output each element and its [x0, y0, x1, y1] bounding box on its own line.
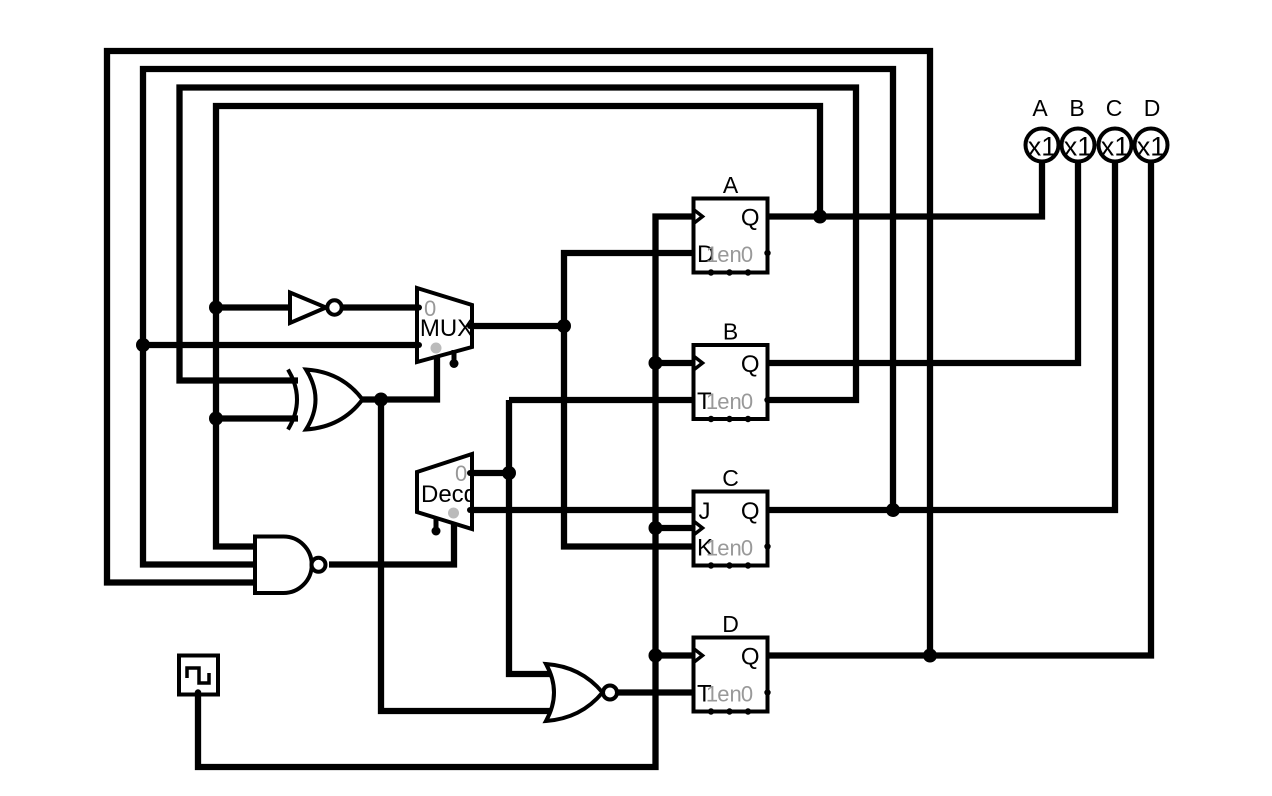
- wire feedback loop 3 (FF B notQ to XOR): [180, 88, 857, 401]
- svg-text:Q: Q: [741, 498, 760, 525]
- node junction mux out: [557, 319, 571, 333]
- svg-text:0: 0: [741, 682, 753, 707]
- multiplexer MUX: [416, 288, 473, 368]
- node junction clockD: [649, 649, 663, 663]
- clock source: [179, 656, 218, 696]
- flip-flop D (T): [694, 611, 771, 715]
- svg-text:0: 0: [741, 389, 753, 414]
- svg-text:en: en: [717, 682, 741, 707]
- decoder Decd: [417, 454, 477, 536]
- svg-text:D: D: [722, 611, 739, 637]
- nand gate: [255, 537, 326, 594]
- node junction AQ: [813, 210, 827, 224]
- wire NOR output: [618, 689, 694, 695]
- wire decoder out1 net: [472, 507, 694, 513]
- output probe B: [1062, 95, 1095, 162]
- node junction clockB: [649, 356, 663, 370]
- svg-text:0: 0: [741, 242, 753, 267]
- svg-text:Q: Q: [741, 205, 760, 232]
- output probe C: [1099, 95, 1132, 162]
- svg-text:B: B: [723, 319, 738, 345]
- wire FF B Q to probe B: [768, 162, 1079, 363]
- svg-text:x1: x1: [1101, 132, 1130, 162]
- node junction clockC: [649, 521, 663, 535]
- svg-text:J: J: [699, 498, 711, 525]
- wire clock net: [198, 217, 694, 768]
- wire feedback loop 2 (FF C Q to NAND and MUX): [143, 69, 1115, 565]
- flip-flop B (T): [694, 319, 771, 423]
- node junction dec out0: [502, 466, 516, 480]
- node junction CQ: [886, 503, 900, 517]
- svg-text:B: B: [1069, 95, 1084, 121]
- svg-text:en: en: [717, 536, 741, 561]
- svg-text:0: 0: [741, 536, 753, 561]
- svg-text:C: C: [722, 465, 739, 491]
- flip-flop A (D): [694, 172, 771, 276]
- svg-text:MUX: MUX: [420, 315, 473, 342]
- svg-text:C: C: [1106, 95, 1123, 121]
- output probe D: [1135, 95, 1168, 162]
- node junction DQ: [923, 649, 937, 663]
- node junction xor out: [374, 393, 388, 407]
- svg-text:Decd: Decd: [421, 481, 477, 508]
- svg-text:x1: x1: [1137, 132, 1166, 162]
- wire NAND output net: [329, 524, 454, 565]
- svg-text:A: A: [723, 172, 739, 198]
- wire MUX output net: [472, 253, 694, 547]
- svg-text:en: en: [717, 242, 741, 267]
- xor gate: [288, 370, 363, 430]
- svg-text:Q: Q: [741, 351, 760, 378]
- svg-text:x1: x1: [1064, 132, 1093, 162]
- wire NOT output: [343, 304, 417, 310]
- svg-text:D: D: [1144, 95, 1161, 121]
- node junction loop2 mux: [136, 338, 150, 352]
- output probe A: [1026, 95, 1059, 162]
- node junction loop4 not: [209, 301, 223, 315]
- svg-text:en: en: [717, 389, 741, 414]
- flip-flop C (JK): [694, 465, 771, 569]
- inverter gate: [290, 293, 342, 324]
- svg-text:Q: Q: [741, 644, 760, 671]
- nor gate: [546, 664, 617, 721]
- wire feedback loop 1 (FF D Q to NAND): [107, 51, 1151, 656]
- wire feedback loop 4 (FF A Q to NOT, XOR, NAND): [216, 106, 1042, 547]
- svg-text:A: A: [1032, 95, 1048, 121]
- node junction loop4 xor: [209, 412, 223, 426]
- svg-text:x1: x1: [1028, 132, 1057, 162]
- wire XOR output net: [363, 356, 553, 711]
- wire decoder out0 net: [472, 400, 694, 674]
